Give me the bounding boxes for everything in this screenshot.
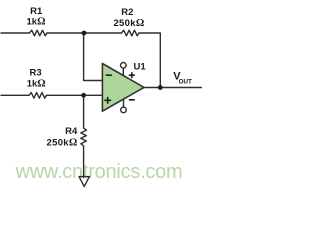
svg-text:www.cntronics.com: www.cntronics.com [15, 161, 183, 183]
svg-text:R1: R1 [30, 6, 43, 17]
svg-text:R4: R4 [65, 126, 78, 137]
svg-text:R2: R2 [121, 7, 133, 18]
svg-text:250kΩ: 250kΩ [47, 138, 78, 149]
svg-text:OUT: OUT [179, 79, 192, 86]
svg-text:1kΩ: 1kΩ [27, 78, 46, 89]
svg-text:U1: U1 [134, 62, 147, 73]
svg-text:250kΩ: 250kΩ [113, 18, 144, 29]
svg-text:1kΩ: 1kΩ [27, 17, 46, 28]
svg-text:R3: R3 [30, 67, 42, 78]
